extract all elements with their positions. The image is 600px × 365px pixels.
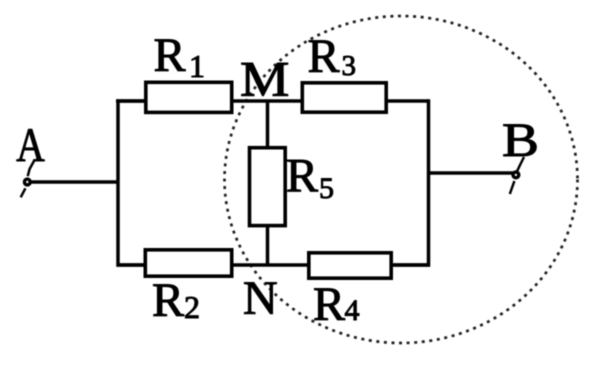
resistor R5 xyxy=(250,148,286,226)
svg-text:M: M xyxy=(240,52,289,107)
resistor R2 xyxy=(145,250,231,276)
svg-text:R5: R5 xyxy=(286,150,334,206)
resistor R4 xyxy=(309,253,391,278)
svg-text:N: N xyxy=(243,272,278,325)
svg-text:R3: R3 xyxy=(308,30,357,83)
wire R3 to right bus xyxy=(386,99,429,103)
wire R5 down to node N xyxy=(266,226,270,267)
svg-text:R2: R2 xyxy=(152,274,200,327)
wire M down to R5 xyxy=(266,100,270,149)
terminal A xyxy=(21,160,35,198)
wire R1 to R3 through node M xyxy=(231,99,302,103)
svg-text:R4: R4 xyxy=(313,278,360,331)
resistor R3 xyxy=(302,83,386,112)
wire R2 to R4 through node N xyxy=(232,263,309,267)
dotted boundary circle xyxy=(225,16,578,343)
wire bus to R1 xyxy=(116,99,148,103)
wire A to left bus xyxy=(30,180,118,184)
svg-text:R1: R1 xyxy=(154,29,206,84)
terminal B xyxy=(510,157,524,194)
svg-text:A: A xyxy=(16,119,45,172)
left bus wire xyxy=(118,101,145,265)
wire right bus to B xyxy=(429,171,515,175)
wire R4 to right bus xyxy=(391,263,430,267)
resistor R1 xyxy=(146,82,232,112)
wire bus to R2 xyxy=(117,263,148,267)
right bus wire xyxy=(394,99,429,265)
svg-text:B: B xyxy=(502,114,539,167)
